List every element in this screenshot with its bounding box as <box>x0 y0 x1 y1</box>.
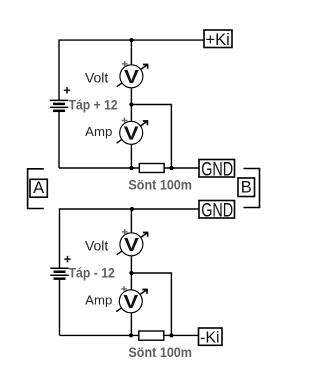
voltmeter V1 plus mark <box>122 61 128 67</box>
ammeter A1 <box>117 121 148 144</box>
node B bracket <box>244 169 260 208</box>
node junction dot shunt right (bottom) <box>169 333 173 337</box>
svg-text:Amp: Amp <box>85 293 112 308</box>
node A bracket <box>28 169 44 209</box>
wire bottom rail of bottom circuit (-Ki rail) <box>60 334 199 336</box>
wire battery BT1 negative lead <box>58 111 60 168</box>
svg-text:A: A <box>33 179 44 197</box>
svg-text:-Ki: -Ki <box>200 330 220 347</box>
terminal GND box (bottom circuit) <box>199 200 235 222</box>
svg-text:Táp + 12: Táp + 12 <box>69 97 118 112</box>
terminal +Ki box <box>204 30 232 49</box>
node junction dot between V1 and A1 <box>129 102 133 106</box>
svg-text:Volt: Volt <box>85 237 108 253</box>
voltmeter V2 <box>117 233 148 256</box>
ammeter A2 plus mark <box>121 286 127 292</box>
voltmeter V2 plus mark <box>122 229 128 235</box>
svg-text:Volt: Volt <box>85 69 108 85</box>
svg-text:Táp - 12: Táp - 12 <box>69 265 115 280</box>
node junction dot shunt right (top) <box>169 166 173 170</box>
wire main meter chain vertical (top circuit) <box>130 40 132 168</box>
battery BT2 Táp - 12 <box>50 268 68 278</box>
node junction dot between V2 and A2 <box>129 271 133 275</box>
ammeter A2 <box>116 290 147 313</box>
wire battery BT2 negative lead <box>59 279 61 336</box>
wire top rail (node +Ki) <box>59 40 204 100</box>
voltmeter V1 <box>117 65 148 88</box>
svg-text:Sönt 100m: Sönt 100m <box>128 178 192 193</box>
svg-text:Amp: Amp <box>85 124 112 139</box>
svg-text:V: V <box>123 292 138 312</box>
terminal GND box (top circuit) <box>199 159 235 181</box>
svg-text:+Ki: +Ki <box>205 31 229 49</box>
terminal -Ki box <box>199 328 223 347</box>
battery BT2 plus polarity mark <box>64 256 70 262</box>
svg-text:V: V <box>124 235 139 255</box>
node B label box <box>238 178 255 197</box>
svg-text:GND: GND <box>201 159 233 181</box>
wire top rail of bottom circuit (GND rail 2) <box>60 209 200 268</box>
battery BT1 plus polarity mark <box>64 87 70 93</box>
resistor R1 shunt (top) <box>139 164 164 173</box>
battery BT1 Táp + 12 <box>50 100 68 110</box>
svg-text:V: V <box>124 124 139 144</box>
svg-text:B: B <box>241 179 252 197</box>
node junction dot shunt left (bottom) <box>129 333 133 337</box>
wire branch from V1/A1 junction to shunt right (top circuit) <box>131 105 171 169</box>
node A label box <box>30 179 47 197</box>
svg-text:V: V <box>124 67 139 87</box>
wire branch from V2/A2 junction to shunt right (bottom circuit) <box>131 273 171 335</box>
node junction dot shunt left (top) <box>129 166 133 170</box>
node junction dot top rail <box>129 38 133 42</box>
wire bottom rail of top circuit (GND rail) <box>59 167 199 169</box>
svg-text:Sönt 100m: Sönt 100m <box>128 345 192 360</box>
wire main meter chain vertical (bottom circuit) <box>130 209 132 335</box>
resistor R2 shunt (bottom) <box>139 331 164 340</box>
svg-text:GND: GND <box>201 200 233 222</box>
ammeter A1 plus mark <box>122 118 128 124</box>
node junction dot rail 2 <box>130 207 134 211</box>
